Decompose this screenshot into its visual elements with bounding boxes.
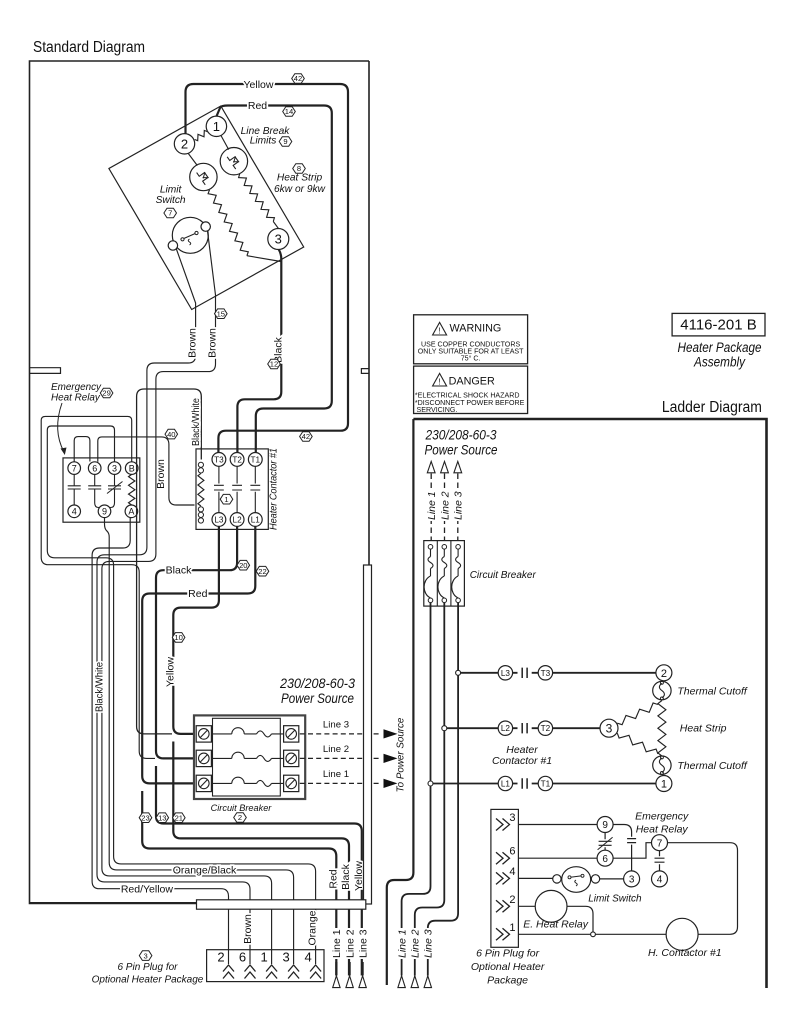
svg-text:Brown: Brown	[155, 459, 167, 489]
relay terminal 6	[88, 462, 101, 475]
standard diagram border	[30, 61, 370, 904]
svg-text:23: 23	[141, 813, 149, 822]
svg-text:Black: Black	[340, 863, 352, 889]
hex tag 13	[156, 813, 169, 823]
ladder breaker pole at x=430.5	[428, 545, 433, 550]
relay terminal 9	[98, 505, 111, 518]
svg-text:Heat Strip: Heat Strip	[277, 173, 323, 184]
svg-text:4: 4	[509, 866, 515, 878]
thermal cutoff TC near terminal 2	[190, 163, 217, 190]
dashed line to power source row 2	[300, 757, 382, 759]
contactor terminal L1	[248, 513, 262, 527]
svg-text:12: 12	[270, 360, 278, 369]
svg-text:Black/White: Black/White	[190, 398, 202, 446]
junction node rung3	[428, 781, 433, 786]
svg-text:6 Pin Plug for: 6 Pin Plug for	[117, 962, 178, 973]
hex tag 12	[268, 359, 281, 369]
crossed capacitor between 9 and 6	[599, 833, 612, 851]
svg-text:Line 2: Line 2	[323, 744, 349, 755]
svg-text:1: 1	[509, 922, 515, 934]
svg-text:Brown: Brown	[207, 328, 219, 358]
6 pin plug (standard)	[207, 950, 324, 982]
vertical wire duct	[364, 565, 372, 904]
limit switch (ladder)	[562, 867, 591, 893]
svg-text:230/208-60-3: 230/208-60-3	[279, 675, 355, 691]
contactor terminal L3	[212, 513, 226, 527]
ladder breaker pole at x=444.3	[442, 545, 447, 550]
svg-text:42: 42	[294, 74, 302, 83]
svg-text:14: 14	[285, 107, 293, 116]
hex tag 42 at contactor	[300, 432, 313, 442]
relay terminal 3	[108, 462, 121, 475]
svg-text:Assembly: Assembly	[693, 355, 746, 370]
leader arrow to relay box	[58, 403, 64, 452]
junction node rung1	[456, 670, 461, 675]
capacitor symbol on pin3 branch	[627, 839, 636, 871]
wire 15 brown: limit switch right terminal down	[102, 231, 272, 950]
terminal 1 (line break limit)	[206, 116, 226, 136]
svg-text:3: 3	[509, 812, 515, 824]
svg-text:Standard Diagram: Standard Diagram	[33, 39, 145, 56]
relay contact 6-9	[88, 474, 101, 507]
svg-text:Black/White: Black/White	[94, 662, 106, 712]
rung 2 wire L2-T2 to heater 3	[444, 727, 600, 729]
svg-text:Emergency: Emergency	[51, 382, 102, 393]
svg-text:SERVICING.: SERVICING.	[417, 406, 458, 414]
svg-text:6 Pin Plug for: 6 Pin Plug for	[476, 948, 540, 960]
svg-text:Yellow: Yellow	[164, 657, 176, 687]
horizontal wire duct	[197, 900, 366, 909]
svg-text:Ladder Diagram: Ladder Diagram	[662, 399, 762, 416]
contactor contact L3-T3 (ladder)	[498, 666, 512, 680]
heater terminal 1 (ladder)	[656, 776, 672, 792]
svg-text:1: 1	[661, 779, 667, 791]
svg-text:Red/Yellow: Red/Yellow	[121, 884, 174, 896]
rung 3 wire L1-T1 to heater 1	[431, 783, 656, 785]
svg-text:4: 4	[304, 950, 311, 965]
breaker hump	[232, 728, 244, 734]
wire 10 yellow: contactor L3 to circuit breaker row1	[173, 526, 219, 734]
svg-text:6: 6	[92, 463, 97, 473]
wire black/white: relay area to contactor coil	[137, 389, 202, 734]
svg-text:L2: L2	[233, 516, 243, 525]
wire relay B loop	[41, 416, 155, 758]
svg-text:H. Contactor #1: H. Contactor #1	[648, 947, 722, 959]
svg-text:Emergency: Emergency	[635, 811, 689, 823]
ladder power source lines with arrows	[427, 461, 435, 472]
hex tag 20	[237, 560, 250, 570]
svg-text:Limit Switch: Limit Switch	[588, 894, 642, 905]
hex tag 2	[234, 813, 247, 823]
heat strip center leg (ladder)	[658, 701, 666, 757]
contactor terminal T2	[230, 453, 244, 467]
part number box 4116-201 B	[672, 313, 765, 336]
svg-text:Yellow: Yellow	[244, 79, 274, 91]
svg-text:230/208-60-3: 230/208-60-3	[425, 427, 497, 443]
svg-text:9: 9	[102, 507, 107, 517]
danger triangle	[433, 373, 447, 386]
H contactor #1 coil	[666, 918, 698, 950]
svg-text:Limit: Limit	[160, 185, 183, 196]
ladder circuit breaker	[424, 541, 465, 607]
ladder line pigtails	[396, 928, 408, 959]
wire heat strip left to node at terminal 3	[247, 256, 281, 262]
ladder bus line 2	[415, 603, 445, 962]
svg-text:Power Source: Power Source	[425, 442, 498, 458]
hex tag 22	[256, 566, 269, 576]
svg-text:T1: T1	[251, 455, 261, 464]
contactor terminal T3	[212, 453, 226, 467]
svg-text:Line 3: Line 3	[423, 929, 435, 958]
breaker squiggle	[257, 731, 272, 737]
warning triangle	[433, 322, 447, 335]
svg-text:Red: Red	[248, 100, 267, 112]
thermal cutoff lower (ladder)	[653, 756, 671, 774]
ladder plug pin 6	[496, 852, 510, 864]
svg-text:Line 2: Line 2	[344, 929, 356, 958]
svg-text:4: 4	[72, 507, 77, 517]
wire yellow continuation to line2 pigtail black	[173, 742, 349, 976]
heat strip element right	[239, 174, 275, 222]
wire pin6 to relay 6 and 7	[518, 843, 651, 859]
border break tab right	[361, 369, 369, 374]
svg-text:1: 1	[224, 495, 228, 504]
svg-text:Line 3: Line 3	[453, 491, 465, 520]
limit switch terminal right	[201, 222, 210, 231]
danger box	[414, 366, 528, 413]
svg-text:Line 3: Line 3	[323, 720, 349, 731]
wire 12 black: heater terminal 3 to contactor T2	[237, 250, 281, 453]
limit switch contact symbol	[182, 233, 198, 240]
border break tab left	[30, 368, 61, 374]
hex tag 14	[283, 107, 296, 117]
svg-text:21: 21	[175, 813, 183, 822]
svg-text:Line 1: Line 1	[331, 929, 343, 958]
breaker hump	[232, 752, 244, 758]
svg-text:Circuit Breaker: Circuit Breaker	[211, 803, 273, 813]
circuit breaker box	[194, 715, 305, 799]
svg-text:Line 2: Line 2	[439, 491, 451, 520]
heat strip upper leg (ladder)	[617, 703, 658, 725]
svg-text:7: 7	[657, 838, 663, 849]
wire red continuation to line1 pigtail red	[142, 791, 336, 976]
contactor pole contact at x=237.1	[232, 466, 242, 512]
svg-text:DANGER: DANGER	[449, 375, 495, 387]
hex tag 8	[293, 164, 306, 174]
breaker squiggle	[257, 755, 272, 761]
svg-text:Orange: Orange	[307, 910, 319, 945]
svg-text:4116-201 B: 4116-201 B	[680, 317, 756, 334]
thermal cutoff TC near terminal 1	[220, 148, 247, 175]
circuit breaker pole row 2	[196, 750, 211, 766]
hex tag 23	[139, 813, 152, 823]
svg-text:42: 42	[302, 432, 310, 441]
relay contact 3 (ladder)	[624, 871, 640, 887]
hex tag 1	[220, 494, 233, 504]
ladder breaker pole at x=458.1	[456, 545, 461, 550]
svg-text:Brown: Brown	[242, 914, 254, 944]
svg-text:Thermal Cutoff: Thermal Cutoff	[677, 760, 748, 772]
breaker hump	[232, 777, 244, 783]
svg-text:13: 13	[158, 813, 166, 822]
wire brown: limit switch left terminal down to plug pin 6	[97, 249, 250, 950]
svg-text:Optional Heater Package: Optional Heater Package	[92, 975, 204, 986]
svg-text:3: 3	[112, 463, 117, 473]
wire relay 9 to plug pin 3 orange/black	[105, 518, 294, 950]
svg-text:7: 7	[72, 463, 77, 473]
relay terminal 7	[68, 462, 81, 475]
limit switch terminal left	[168, 241, 177, 250]
hex tag 21	[173, 813, 186, 823]
hex tag 10	[172, 633, 185, 643]
wire pin4 to limit switch to 3	[518, 877, 623, 880]
hex tag 42 top	[292, 74, 305, 84]
svg-text:2: 2	[238, 813, 242, 822]
svg-text:9: 9	[602, 820, 608, 831]
heat strip lower leg (ladder)	[617, 733, 658, 754]
svg-text:Line 3: Line 3	[357, 929, 369, 958]
relay coil B-A	[129, 474, 135, 505]
heater terminal 3 (ladder)	[600, 719, 618, 737]
contactor pole contact at x=255.3	[250, 466, 260, 512]
svg-text:Heat Relay: Heat Relay	[51, 393, 101, 404]
wire E heat relay to pin1 rung	[567, 906, 593, 932]
wire 40 brown: relay 6 to contactor coil	[98, 437, 195, 505]
relay contact 7-4	[68, 474, 81, 505]
relay contact 6 (ladder)	[597, 850, 613, 866]
svg-text:10: 10	[174, 633, 182, 642]
relay terminal B	[125, 462, 138, 475]
svg-text:Heat Relay: Heat Relay	[636, 824, 689, 836]
wire 42 yellow: thermal cutoff 2 to contactor T3	[186, 84, 349, 452]
ladder bus line 1	[402, 603, 431, 962]
svg-text:Limits: Limits	[250, 136, 277, 147]
svg-text:Red: Red	[327, 869, 339, 888]
svg-text:15: 15	[217, 309, 225, 318]
svg-text:Heater Contactor #1: Heater Contactor #1	[268, 448, 280, 530]
contactor terminal L2	[230, 513, 244, 527]
contactor pole contact at x=218.9	[214, 466, 224, 512]
svg-text:3: 3	[629, 875, 635, 886]
ladder plug pin 3	[496, 819, 510, 831]
svg-text:6: 6	[509, 846, 515, 858]
junction node rung2	[442, 726, 447, 731]
E heat relay coil	[535, 890, 567, 922]
svg-text:6kw or 9kw: 6kw or 9kw	[274, 184, 326, 195]
svg-text:7: 7	[168, 209, 172, 218]
dashed line to power source row 1	[300, 733, 382, 735]
wire pin1 to H contactor	[518, 933, 666, 935]
ladder diagram border	[413, 419, 766, 988]
svg-text:Circuit Breaker: Circuit Breaker	[470, 570, 537, 581]
svg-text:3: 3	[143, 951, 147, 960]
svg-text:L2: L2	[501, 724, 511, 733]
svg-text:75° C.: 75° C.	[461, 355, 481, 363]
hex tag 15	[215, 309, 228, 319]
svg-text:L3: L3	[501, 669, 511, 678]
contactor coil symbol	[198, 462, 203, 467]
svg-text:L1: L1	[501, 780, 511, 789]
circuit breaker pole row 1	[196, 726, 211, 742]
svg-text:Line 1: Line 1	[426, 491, 438, 520]
hex tag 9	[279, 137, 292, 147]
wire terminal1 to TC1	[221, 135, 229, 149]
svg-text:Orange/Black: Orange/Black	[173, 864, 237, 876]
hex tag 29	[100, 388, 113, 398]
wire circle7 right loop to H contactor	[668, 843, 738, 935]
heater terminal 2 (ladder)	[656, 665, 672, 681]
svg-text:L1: L1	[251, 516, 261, 525]
svg-text:Brown: Brown	[187, 328, 199, 358]
limit switch body	[172, 217, 208, 253]
svg-text:2: 2	[661, 668, 667, 680]
spring wire between terminals 2 and 1	[195, 130, 208, 140]
wire relay 7 to 6 jumper	[74, 437, 90, 462]
ladder plug pin 4	[496, 872, 510, 884]
relay contact 3-9 crossed	[108, 474, 121, 507]
svg-text:Power Source: Power Source	[281, 690, 354, 706]
svg-text:T2: T2	[232, 455, 242, 464]
wire heat strip right to terminal 3	[273, 222, 278, 229]
heat strip element left	[208, 190, 248, 256]
svg-text:T3: T3	[541, 669, 551, 678]
svg-text:Heater Package: Heater Package	[678, 340, 762, 355]
rung 1 wire L3-T3 to heater 2	[458, 672, 656, 674]
svg-text:Black: Black	[166, 565, 192, 577]
contactor contact L1-T1 (ladder)	[498, 776, 512, 790]
svg-text:1: 1	[213, 119, 220, 134]
ladder plug pin 1	[496, 928, 510, 940]
capacitor between 7 and 4	[655, 851, 665, 871]
wire pin2 to E heat relay	[518, 905, 535, 907]
svg-text:L3: L3	[214, 516, 224, 525]
wire 22 red: contactor L1 to circuit breaker row3	[142, 526, 255, 783]
wire black continuation to line3 pigtail yellow	[156, 766, 362, 976]
svg-text:3: 3	[282, 950, 289, 965]
thermal cutoff upper (ladder)	[653, 681, 671, 699]
svg-text:Line 2: Line 2	[410, 929, 422, 958]
relay terminal A	[125, 505, 138, 518]
svg-text:T1: T1	[541, 780, 551, 789]
svg-text:!: !	[438, 326, 440, 335]
svg-text:WARNING: WARNING	[450, 322, 502, 334]
svg-text:22: 22	[258, 567, 266, 576]
svg-text:To Power Source: To Power Source	[396, 717, 407, 792]
svg-text:Package: Package	[487, 975, 528, 987]
relay terminal 4	[68, 505, 81, 518]
relay contact 9 (ladder)	[597, 817, 613, 833]
svg-text:2: 2	[509, 894, 515, 906]
relay contact 4 (ladder)	[652, 871, 668, 887]
svg-text:2: 2	[181, 137, 188, 152]
wire terminal2 to TC2	[188, 154, 197, 166]
svg-text:4: 4	[657, 875, 663, 886]
heater contactor #1 box	[196, 449, 268, 530]
heater assembly rotated box	[109, 106, 304, 310]
wire relay 3 loop to plug pin 4 orange	[47, 426, 315, 950]
svg-text:29: 29	[102, 389, 110, 398]
contactor contact L2-T2 (ladder)	[498, 721, 512, 735]
warning box	[414, 315, 528, 364]
wire 20 black: contactor L2 to circuit breaker row2	[156, 526, 237, 758]
hex tag 3	[139, 951, 152, 961]
svg-text:Heat Strip: Heat Strip	[680, 723, 727, 735]
line pigtails standard	[330, 928, 342, 959]
terminal 3 (heater)	[268, 229, 289, 250]
svg-text:T2: T2	[541, 724, 551, 733]
ladder bus line 3	[428, 603, 458, 962]
svg-text:40: 40	[167, 430, 175, 439]
svg-text:Red: Red	[188, 588, 207, 600]
svg-text:Contactor #1: Contactor #1	[492, 755, 552, 767]
svg-text:6: 6	[239, 950, 246, 965]
wire pin3 to relay 9 and capacitor	[518, 825, 631, 837]
wire 14 red: line break limit 1 to contactor T1	[216, 106, 331, 453]
relay contact 7 (ladder)	[652, 835, 668, 851]
svg-text:6: 6	[602, 854, 608, 865]
svg-text:3: 3	[606, 722, 613, 736]
hex tag 7	[164, 208, 177, 218]
svg-text:Optional Heater: Optional Heater	[471, 961, 545, 973]
svg-text:3: 3	[275, 232, 282, 247]
svg-text:A: A	[128, 507, 134, 517]
wire relay A to plug pin 2 red/yellow	[92, 518, 228, 950]
svg-text:E. Heat Relay: E. Heat Relay	[523, 919, 589, 931]
svg-text:Line 1: Line 1	[396, 929, 408, 958]
terminal 2	[174, 134, 194, 154]
ladder plug pin 2	[496, 900, 510, 912]
svg-text:2: 2	[217, 950, 224, 965]
svg-text:9: 9	[283, 137, 287, 146]
contactor terminal T1	[248, 453, 262, 467]
dashed line to power source row 3	[300, 782, 382, 784]
breaker squiggle	[257, 780, 272, 786]
svg-text:T3: T3	[214, 455, 224, 464]
svg-text:Line 1: Line 1	[323, 769, 349, 780]
svg-text:20: 20	[239, 561, 247, 570]
junction on pin1 wire	[591, 932, 596, 937]
svg-text:!: !	[438, 377, 440, 386]
svg-text:B: B	[129, 463, 135, 473]
svg-text:1: 1	[260, 950, 267, 965]
svg-text:Switch: Switch	[156, 195, 186, 206]
circuit breaker pole row 3	[196, 775, 211, 791]
hex tag 40	[165, 429, 178, 439]
svg-text:Thermal Cutoff: Thermal Cutoff	[677, 685, 748, 697]
emergency heat relay box	[63, 458, 140, 522]
6 pin plug (ladder)	[491, 809, 519, 947]
